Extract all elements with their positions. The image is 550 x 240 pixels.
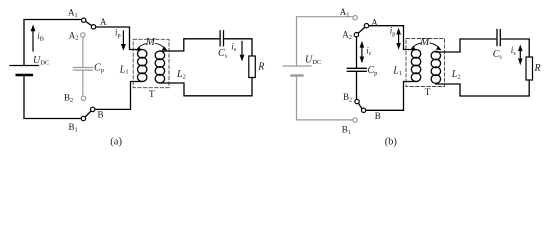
wire: L2 top to Cs [436,39,496,52]
resistor R [249,56,256,78]
transformer T dashed box [406,39,445,87]
switch terminal A2 [354,33,358,37]
switch pole B [361,108,365,112]
svg-text:B: B [98,110,104,120]
resistor R [526,57,533,80]
switch pole A [364,24,368,28]
wire gray: A2 to Cp [82,37,84,67]
wire: B to L1 bottom [366,82,416,111]
capacitor Cp plate top [347,67,366,69]
capacitor Cp plate bottom (gray) [73,69,92,71]
capacitor Cs plate right [499,30,501,46]
arrow i_B [32,31,34,52]
mutual inductance arrow left [414,43,422,47]
arrow i_s [241,42,243,56]
battery U_DC long plate (gray) [283,65,311,67]
capacitor Cs plate right [223,31,225,46]
switch terminal B2 [355,99,359,103]
switch terminal A1 [82,18,86,22]
wire: battery bottom-left to B1 [24,75,81,119]
arrow i_s (double) [519,50,521,61]
svg-text:T: T [149,90,155,100]
wire: R bottom to L2 bottom [436,80,529,96]
capacitor Cs plate left [219,31,221,46]
mutual inductance arrow right [430,43,438,47]
switch pole A [91,25,95,29]
wire: A to transformer primary top [369,26,416,50]
switch terminal A1 (gray, open) [353,16,357,20]
wire gray: battery top to A1 [297,17,353,66]
svg-text:M: M [419,36,430,48]
inductor L1 (primary winding) [138,50,147,59]
switch terminal B1 (gray, open) [353,118,357,122]
wire gray: Cp to B2 [82,71,84,97]
svg-text:R: R [534,63,541,74]
capacitor Cp plate bottom [347,70,366,72]
svg-text:A: A [100,17,107,27]
switch pole B [91,107,95,111]
wire gray: battery bottom to B1 [297,76,353,120]
battery U_DC long plate [10,65,39,67]
svg-text:(a): (a) [110,137,122,148]
svg-text:M: M [145,36,156,48]
wire: L1 bottom to B [96,82,143,110]
wire: L2 top to Cs [160,39,219,51]
switch blade A2-A [358,27,364,33]
battery U_DC short plate [17,74,32,77]
wire: Cs to R top [225,39,252,56]
inductor L1 (primary winding) [411,50,420,59]
svg-text:B: B [375,111,381,121]
svg-text:R: R [257,62,264,73]
transformer T dashed box [133,39,169,87]
wire: Cp to B2 [356,72,358,99]
switch terminal B2 (gray, open) [81,96,85,100]
mutual inductance arrow right [156,43,164,47]
wire: battery top-left to A1 [24,20,81,66]
switch blade A1-A [86,22,92,26]
switch terminal A2 (gray, open) [81,33,85,37]
mutual inductance arrow left [139,43,147,47]
switch blade B1-B [85,111,91,117]
switch terminal B1 [81,116,85,120]
switch blade B2-B [359,104,362,109]
wire: R bottom to L2 bottom [160,78,252,96]
battery U_DC short plate (gray) [292,74,303,76]
capacitor Cp plate top (gray) [73,67,92,69]
arrow i_c (double) [361,46,363,58]
capacitor Cs plate left [496,30,498,46]
arrow i_p [122,31,124,45]
inductor L2 (secondary winding) [431,51,440,60]
svg-text:T: T [425,88,431,98]
arrow i_p (double) [398,33,400,45]
wire: Cs to R top [502,39,530,57]
svg-text:(b): (b) [385,136,398,147]
inductor L2 (secondary winding) [155,51,164,60]
wire: A2 to Cp [356,37,358,68]
svg-text:A: A [371,17,378,27]
wire: A to transformer primary top [96,27,142,50]
